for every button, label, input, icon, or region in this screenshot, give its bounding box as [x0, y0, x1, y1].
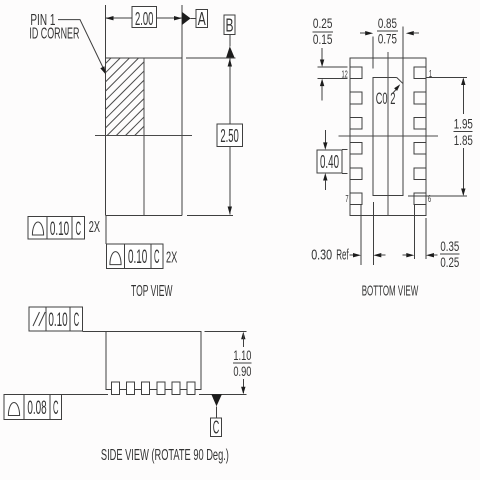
dimension 2.50 upper line with up arrow: [229, 59, 231, 125]
hatch: pin 1 ID quadrant hatching: [106, 58, 145, 136]
datum A triangle: [182, 12, 191, 25]
svg-text:0.75: 0.75: [378, 31, 397, 47]
svg-text:1.85: 1.85: [454, 132, 473, 148]
svg-text:0.85: 0.85: [378, 15, 397, 31]
svg-text:2.50: 2.50: [220, 126, 239, 146]
dimension 2.00 line right segment with arrow: [157, 17, 182, 19]
dimension 0.40 lower arrow: [323, 173, 327, 181]
svg-text:C: C: [213, 418, 220, 438]
wire: top view bottom edge: [106, 214, 183, 216]
wire: datum B leader: [229, 34, 231, 46]
svg-text:B: B: [226, 15, 234, 35]
wire: top view horizontal centerline: [95, 135, 192, 137]
wire: seating plane line (datum C): [62, 393, 247, 395]
svg-text:Ref: Ref: [336, 247, 349, 264]
svg-text:0.25: 0.25: [313, 15, 333, 31]
svg-text:1.10: 1.10: [233, 347, 251, 363]
svg-text:0.35: 0.35: [440, 238, 459, 254]
wire: pad12 bottom extension line: [318, 78, 348, 80]
svg-text:BOTTOM VIEW: BOTTOM VIEW: [362, 283, 419, 300]
dimension box 0.40: [317, 150, 342, 173]
pad 12: [350, 67, 362, 79]
svg-text:C: C: [53, 398, 59, 419]
dimension arrow at 426: [426, 253, 434, 257]
dimension box 2.50: [217, 124, 242, 146]
pad 6: [414, 193, 426, 205]
pad 8: [350, 168, 362, 180]
wire: top extension line to datum B: [186, 57, 235, 59]
svg-text:2.00: 2.00: [135, 9, 154, 29]
datum C box: [211, 418, 222, 436]
wire: bottom view horizontal centerline: [339, 135, 439, 137]
svg-text:1: 1: [429, 68, 432, 80]
wire: 1.95 top extension line: [426, 77, 467, 79]
wire: top view top edge: [106, 57, 183, 59]
svg-text:0.15: 0.15: [313, 31, 333, 47]
wire: pin1 leader line: [58, 20, 103, 68]
svg-text:0.25: 0.25: [440, 254, 459, 270]
wire: top view left edge / extension line: [105, 5, 107, 215]
wire: center pad right extension line: [402, 27, 404, 84]
svg-text:0.10: 0.10: [48, 310, 67, 331]
wire: 1.95 bottom extension line: [408, 195, 467, 197]
wire: pad center extension ticks for 0.40: [342, 150, 348, 174]
dimension arrow at 373.3: [373, 253, 381, 257]
svg-text:0.30: 0.30: [311, 247, 332, 264]
wire: bottom extension line of 2.50: [187, 214, 233, 216]
dimension 2.00 line left segment with arrow: [106, 17, 132, 19]
wire: center pad left extension line: [372, 37, 374, 69]
dimension 2.50 lower line with down arrow: [229, 146, 231, 214]
svg-text:2X: 2X: [89, 219, 100, 236]
svg-text:SIDE VIEW (ROTATE 90 Deg.): SIDE VIEW (ROTATE 90 Deg.): [101, 447, 229, 464]
pad 1: [414, 67, 426, 79]
svg-text:1.95: 1.95: [454, 116, 473, 132]
pad 9: [350, 143, 362, 155]
side view body outline: [106, 332, 201, 390]
svg-text:0.08: 0.08: [27, 398, 46, 419]
side view terminal 6: [187, 382, 195, 394]
svg-text:C: C: [76, 219, 82, 240]
side view terminal 4: [157, 382, 165, 394]
dimension 0.85/0.75 right arrow: [406, 31, 414, 35]
side view terminal 5: [172, 382, 180, 394]
svg-text:C0: C0: [376, 89, 388, 108]
dimension 0.25/0.15 lower arrow: [320, 79, 324, 87]
wire: bottom extension line pad6 left: [413, 205, 415, 259]
svg-text:0.10: 0.10: [128, 247, 147, 268]
wire: top view vertical centerline: [143, 58, 145, 215]
dimension 1.10/0.90 lower arrow: [242, 379, 244, 393]
svg-text:C: C: [74, 310, 80, 331]
feature control frame 2 (profile 0.10 C): [106, 244, 162, 268]
svg-text:2X: 2X: [166, 250, 177, 267]
feature control frame parallelism 0.10 C: [29, 307, 82, 331]
pad 2: [414, 92, 426, 104]
side view terminal 2: [127, 382, 135, 394]
pad 10: [350, 117, 362, 129]
wire: top view right edge / extension line: [181, 5, 183, 215]
datum A box: [196, 9, 207, 27]
side view terminal 3: [142, 382, 150, 394]
wire: datum A leader: [191, 17, 197, 19]
svg-text:ID CORNER: ID CORNER: [29, 26, 79, 43]
wire: bottom extension line center pad edge: [372, 202, 374, 265]
wire: pad12 top extension line: [318, 66, 348, 68]
feature control frame profile 0.08 C: [4, 395, 62, 420]
side view terminal 1: [112, 382, 120, 394]
pad 4: [414, 143, 426, 155]
svg-text:6: 6: [428, 193, 431, 205]
wire: 1.10 top extension line: [205, 331, 247, 333]
center thermal pad with chamfer: [373, 77, 403, 195]
svg-text:0.90: 0.90: [233, 363, 251, 379]
dimension 1.95/1.85 lower line with arrow: [462, 148, 464, 195]
dimension box 2.00: [132, 7, 157, 28]
dimension 0.30 Ref arrow: [350, 254, 355, 256]
svg-text:A: A: [198, 9, 206, 29]
wire: leader from body edge to frame 2: [105, 215, 107, 244]
wire: parallelism leader: [83, 330, 106, 332]
bottom view body outline: [350, 58, 426, 215]
svg-text:0.40: 0.40: [320, 152, 339, 172]
svg-text:TOP VIEW: TOP VIEW: [131, 283, 173, 300]
dimension 1.95/1.85 upper line with arrow: [462, 79, 464, 114]
wire: datum C leader: [216, 406, 218, 418]
datum C triangle: [211, 394, 222, 406]
dimension 0.40 upper arrow: [324, 130, 326, 143]
wire: C0.2 leader with arrowhead: [393, 89, 397, 94]
wire: bottom extension line pad7 edge: [360, 205, 362, 265]
wire: bottom view vertical centerline: [387, 52, 389, 215]
pad 3: [414, 117, 426, 129]
pad 5: [414, 168, 426, 180]
svg-text:C: C: [154, 247, 160, 268]
svg-text:0.10: 0.10: [50, 219, 69, 240]
svg-text:7: 7: [345, 193, 348, 205]
pad 7: [350, 193, 362, 205]
datum B box: [224, 15, 235, 34]
pad 11: [350, 92, 362, 104]
dimension arrow at 414.3: [403, 254, 408, 256]
dimension 0.85/0.75 left arrow: [360, 32, 366, 34]
feature control frame 1 (profile 0.10 C): [28, 217, 85, 240]
pin1 leader arrowhead: [100, 66, 106, 74]
dimension 0.25/0.15 upper arrow: [321, 48, 323, 60]
wire: bottom extension line body right: [425, 218, 427, 259]
datum B triangle: [226, 46, 235, 58]
dimension 1.10/0.90 upper arrow: [241, 332, 245, 340]
